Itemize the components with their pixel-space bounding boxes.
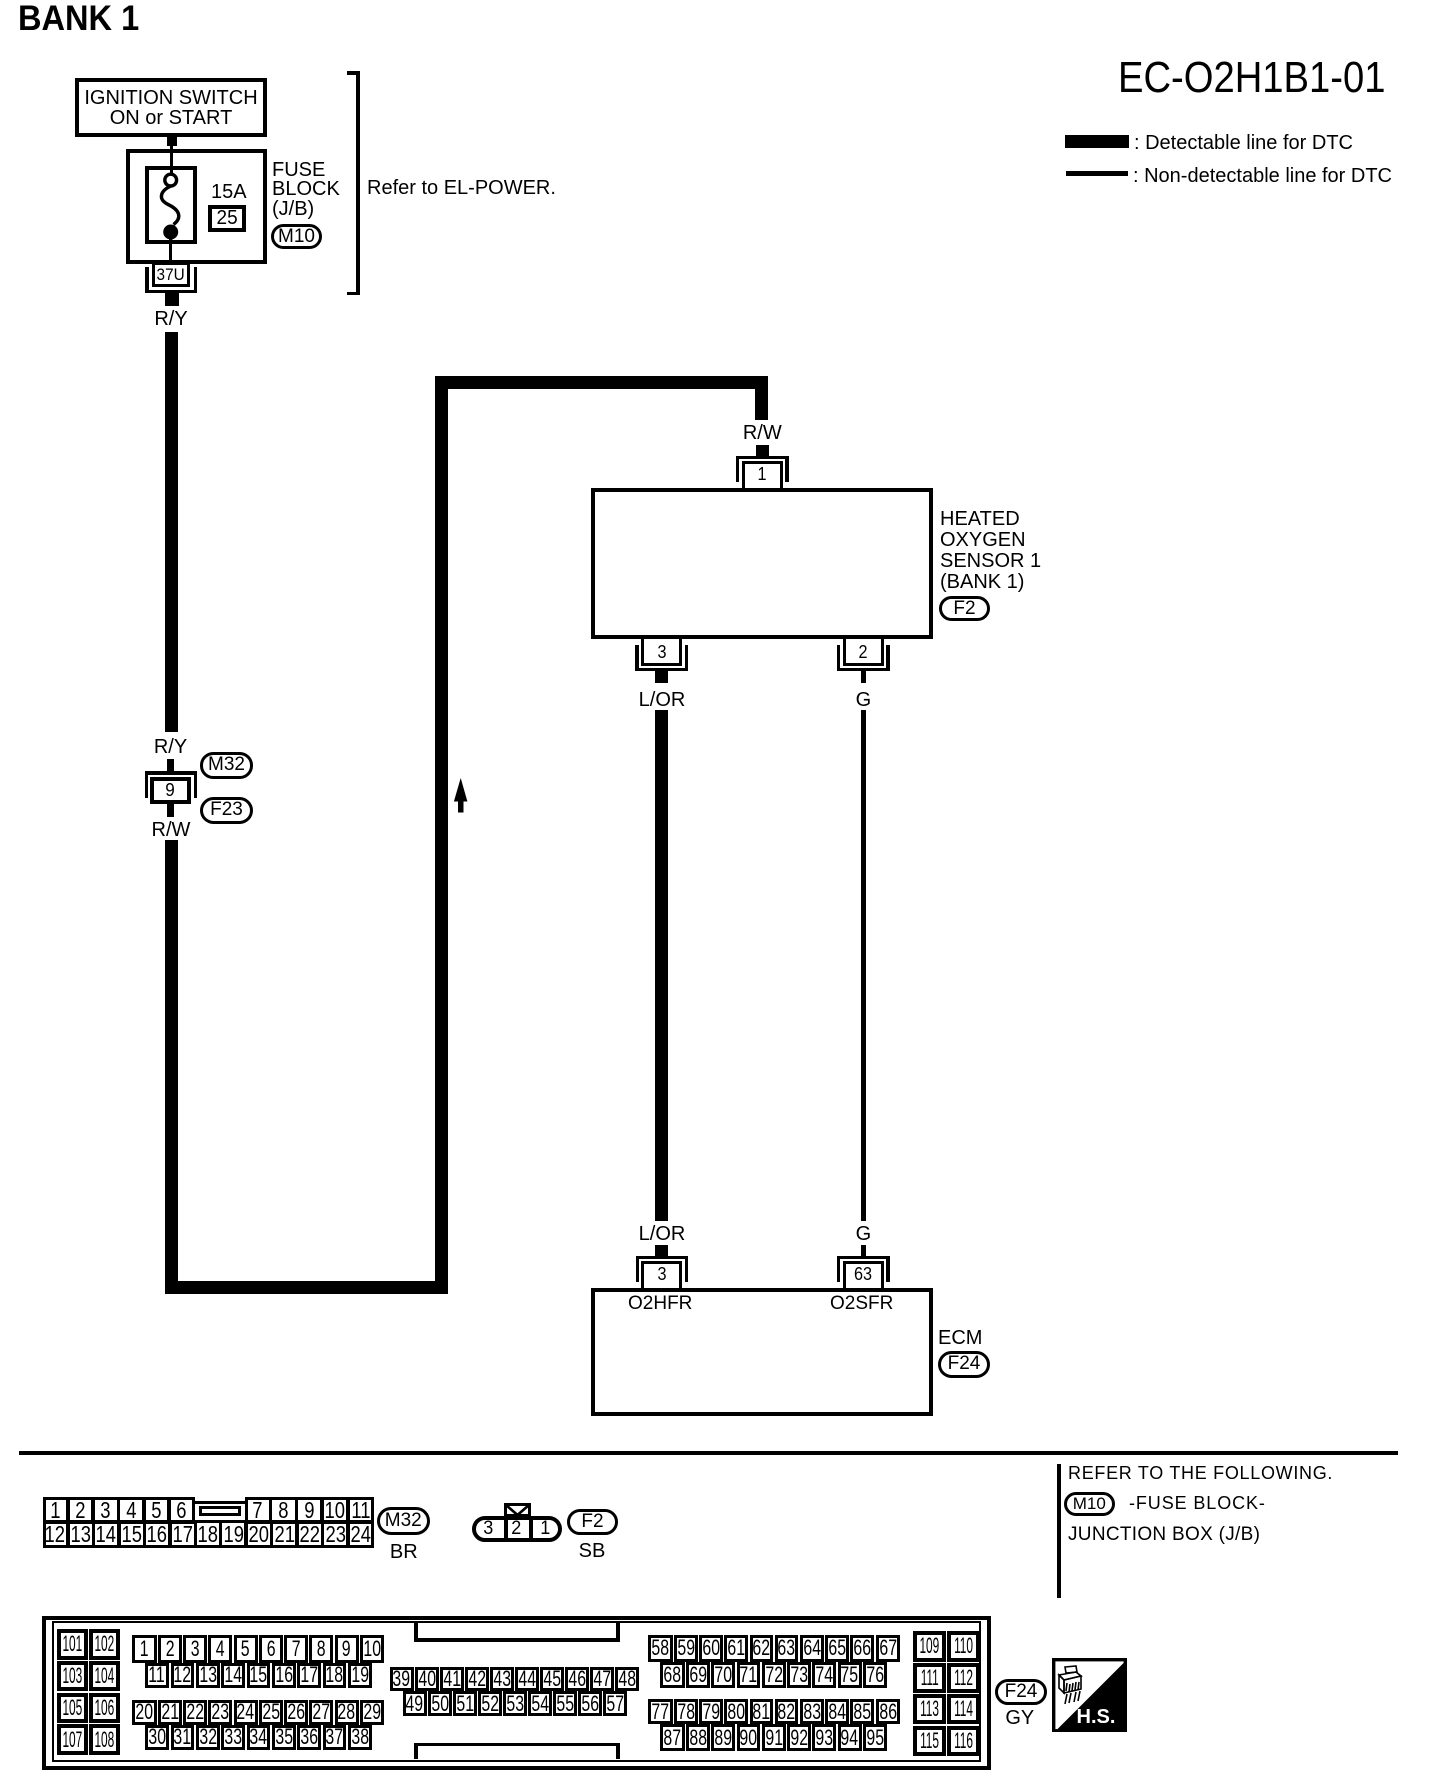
svg-text:H.S.: H.S.: [1077, 1706, 1116, 1728]
